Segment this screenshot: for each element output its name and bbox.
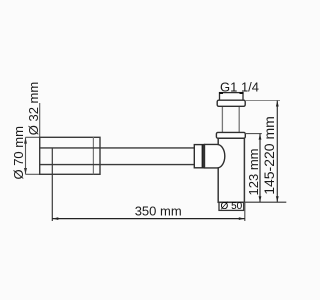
350mm extension line left	[51, 148, 53, 221]
dimension 145-220 arrow top	[276, 101, 279, 107]
dimension 145-220 line	[276, 101, 278, 203]
dimension Ø70 arrow top	[24, 138, 27, 144]
dimension 350 arrow left	[53, 217, 59, 220]
elbow bullet body	[205, 144, 225, 168]
svg-text:123 mm: 123 mm	[246, 149, 261, 196]
svg-text:Ø 70 mm: Ø 70 mm	[11, 126, 26, 179]
wall cup inner band line	[92, 137, 94, 174]
dimension Ø70 extension tick top	[26, 136, 40, 138]
elbow compression nut	[194, 145, 204, 168]
vertical pipe right line	[238, 106, 240, 132]
bottle base band	[219, 202, 244, 210]
dimension 145-220 extension top	[245, 100, 280, 102]
dimension 350 line	[52, 218, 245, 220]
dimension 350 arrow right	[239, 217, 245, 220]
dimension 123 extension top	[245, 133, 261, 135]
dimension 123 line	[259, 134, 261, 203]
dimension 145-220 arrow bottom	[276, 196, 279, 202]
svg-text:Ø 50: Ø 50	[221, 201, 243, 212]
thread tick right	[240, 92, 244, 94]
svg-text:145-220 mm: 145-220 mm	[261, 116, 277, 195]
bottle body	[218, 138, 244, 202]
dimension 123 arrow bottom	[259, 196, 262, 202]
union nut lower	[216, 132, 245, 138]
dimension Ø70 extension tick bottom	[26, 173, 40, 175]
dimension Ø70 line	[25, 137, 27, 174]
wall cup flange	[40, 137, 100, 174]
dimension Ø32 leader line	[39, 103, 41, 148]
dimension 350 right extension	[244, 202, 246, 221]
svg-text:G1 1/4: G1 1/4	[220, 79, 259, 94]
dimension 123 arrow top	[259, 134, 262, 140]
elbow nut thick ring line	[202, 145, 204, 168]
union nut upper	[217, 100, 245, 106]
dimension Ø70 arrow bottom	[24, 168, 27, 174]
svg-text:350 mm: 350 mm	[135, 204, 182, 219]
svg-text:Ø 32 mm: Ø 32 mm	[26, 82, 41, 135]
dimension bottom extension line	[244, 201, 286, 203]
vertical pipe left line	[221, 106, 223, 132]
threaded stub G1 1/4	[220, 93, 244, 101]
horizontal pipe top edge	[40, 147, 194, 149]
thread tick left	[219, 92, 223, 94]
horizontal pipe bottom edge	[40, 164, 194, 166]
